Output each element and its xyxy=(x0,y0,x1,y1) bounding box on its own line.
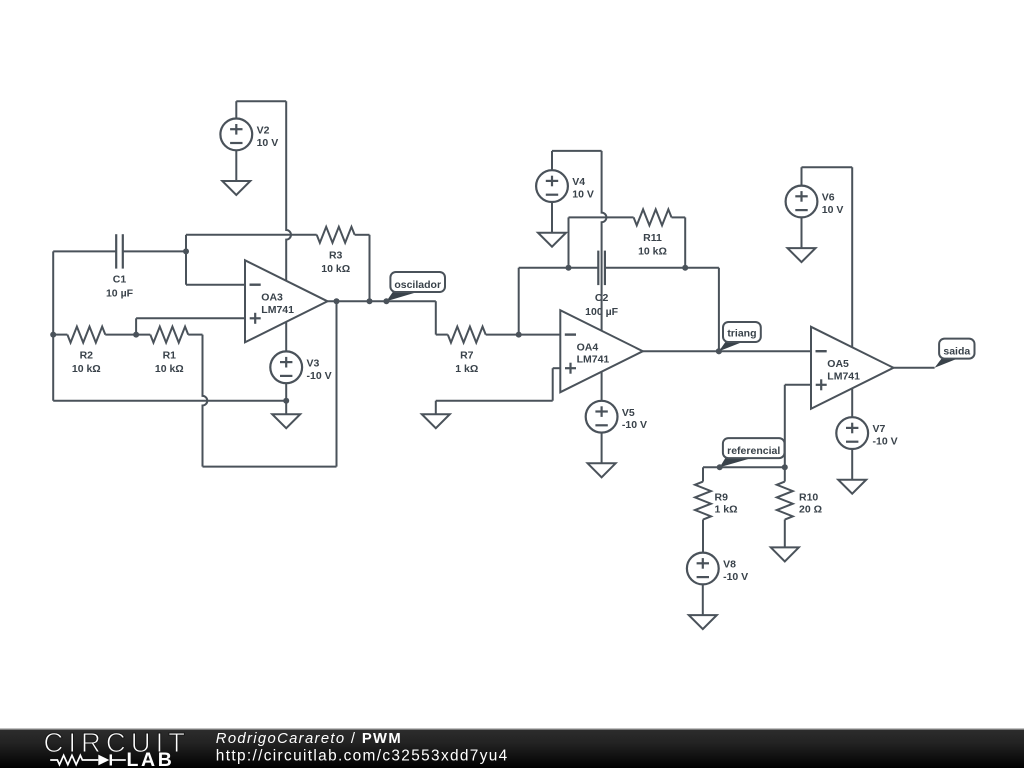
svg-text:saida: saida xyxy=(943,346,970,358)
svg-text:V8: V8 xyxy=(723,559,736,571)
svg-text:R9: R9 xyxy=(715,491,729,503)
svg-text:10 V: 10 V xyxy=(257,137,279,149)
svg-text:10 kΩ: 10 kΩ xyxy=(72,363,101,375)
svg-text:10 µF: 10 µF xyxy=(106,287,134,299)
svg-text:R3: R3 xyxy=(329,250,343,262)
svg-text:referencial: referencial xyxy=(727,445,780,457)
svg-text:10 V: 10 V xyxy=(822,204,844,216)
svg-text:1 kΩ: 1 kΩ xyxy=(455,363,478,375)
svg-text:LM741: LM741 xyxy=(827,370,860,382)
svg-text:V3: V3 xyxy=(307,357,320,369)
svg-text:10 V: 10 V xyxy=(572,189,594,201)
svg-text:LM741: LM741 xyxy=(261,304,294,316)
svg-text:http://circuitlab.com/c32553xd: http://circuitlab.com/c32553xdd7yu4 xyxy=(216,748,509,765)
svg-text:10 kΩ: 10 kΩ xyxy=(321,263,350,275)
svg-text:-10 V: -10 V xyxy=(723,571,748,583)
svg-text:LM741: LM741 xyxy=(577,354,610,366)
svg-text:V4: V4 xyxy=(572,176,585,188)
svg-text:R7: R7 xyxy=(460,349,474,361)
svg-text:1 kΩ: 1 kΩ xyxy=(715,504,738,516)
svg-text:10 kΩ: 10 kΩ xyxy=(638,246,667,258)
svg-text:OA3: OA3 xyxy=(261,291,283,303)
svg-text:10 kΩ: 10 kΩ xyxy=(155,363,184,375)
svg-text:C1: C1 xyxy=(113,273,127,285)
svg-text:-10 V: -10 V xyxy=(873,436,898,448)
svg-text:RodrigoCarareto / PWM: RodrigoCarareto / PWM xyxy=(216,731,402,747)
svg-text:OA4: OA4 xyxy=(577,341,599,353)
svg-text:V2: V2 xyxy=(257,125,270,137)
svg-text:R10: R10 xyxy=(799,491,818,503)
svg-text:R11: R11 xyxy=(643,232,662,244)
svg-text:R1: R1 xyxy=(163,349,177,361)
svg-text:-10 V: -10 V xyxy=(622,419,647,431)
svg-text:V7: V7 xyxy=(873,423,886,435)
svg-text:LAB: LAB xyxy=(127,749,175,768)
svg-text:V5: V5 xyxy=(622,407,635,419)
svg-text:-10 V: -10 V xyxy=(307,370,332,382)
svg-text:OA5: OA5 xyxy=(827,358,849,370)
svg-text:V6: V6 xyxy=(822,192,835,204)
svg-text:20 Ω: 20 Ω xyxy=(799,504,822,516)
svg-text:R2: R2 xyxy=(80,349,94,361)
svg-text:triang: triang xyxy=(727,327,756,339)
svg-text:oscilador: oscilador xyxy=(394,279,441,291)
